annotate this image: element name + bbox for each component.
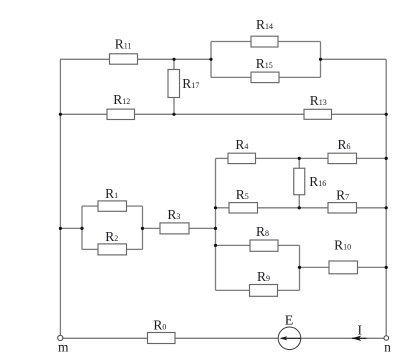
svg-text:R12: R12: [113, 92, 130, 107]
svg-text:R8: R8: [256, 224, 269, 239]
svg-text:R3: R3: [167, 207, 180, 222]
svg-text:R17: R17: [182, 76, 199, 91]
svg-text:R6: R6: [337, 137, 350, 152]
svg-text:n: n: [384, 340, 391, 355]
svg-text:E: E: [285, 313, 294, 328]
svg-text:R7: R7: [336, 187, 349, 202]
svg-text:R11: R11: [115, 37, 132, 52]
svg-text:R9: R9: [257, 269, 270, 284]
svg-text:I: I: [357, 322, 362, 337]
svg-text:R13: R13: [310, 93, 327, 108]
svg-text:R4: R4: [235, 137, 248, 152]
svg-text:R16: R16: [309, 174, 326, 189]
svg-text:R1: R1: [105, 186, 118, 201]
svg-text:R2: R2: [105, 229, 118, 244]
svg-text:R10: R10: [334, 238, 351, 253]
svg-text:R5: R5: [236, 187, 249, 202]
svg-text:R14: R14: [256, 17, 273, 32]
svg-text:m: m: [58, 340, 69, 355]
svg-text:R15: R15: [256, 56, 273, 71]
svg-text:R0: R0: [153, 318, 166, 333]
